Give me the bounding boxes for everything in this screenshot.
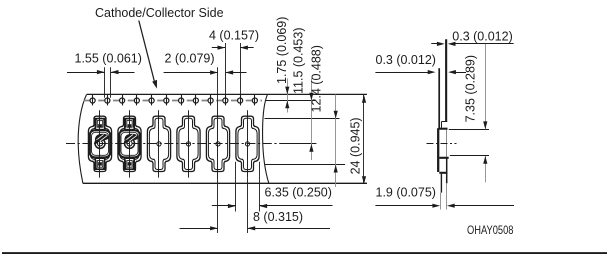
svg-text:2 (0.079): 2 (0.079) (165, 52, 215, 66)
dim 0.3 (0.012) carrier tape thickness (431, 29, 513, 46)
pocket 4 vertical centerline (188, 110, 190, 177)
pocket 6 outline (236, 116, 259, 171)
sprocket holes (90, 95, 95, 105)
dim 6.35 (0.250) pocket width (212, 186, 333, 209)
dim 4 (0.157) sprocket hole pitch (209, 29, 259, 98)
tape top edge (87, 93, 368, 95)
svg-text:12.4 (0.488): 12.4 (0.488) (310, 45, 324, 112)
pocket 4 outline (177, 116, 200, 171)
side view: pocket bottom line (439, 172, 447, 174)
svg-text:1.9 (0.075): 1.9 (0.075) (376, 185, 436, 199)
extension line pocket 6 body right (259, 162, 261, 212)
tape bottom edge (83, 182, 367, 184)
dim 7.35 (0.289) pocket outer depth (449, 44, 489, 182)
side view: pocket top step (438, 128, 447, 130)
dim 0.3 (0.012) cover tape thickness (375, 53, 466, 74)
pocket row horizontal centerline (66, 143, 283, 145)
tape left break line (78, 95, 86, 184)
side view: pocket bump face (437, 128, 439, 172)
pocket 1 outline (88, 116, 111, 171)
svg-text:8 (0.315): 8 (0.315) (253, 210, 303, 224)
sprocket hole row centerline (84, 100, 263, 102)
dim 2 (0.079) pocket centre to sprocket hole (164, 52, 247, 111)
dim 24 (0.945) tape width (349, 95, 367, 184)
svg-text:OHAY0508: OHAY0508 (467, 223, 514, 237)
extension line pocket 6 body left (235, 162, 237, 212)
component (LED package) in pocket 2 (119, 119, 140, 170)
svg-text:1.75 (0.069): 1.75 (0.069) (275, 17, 289, 84)
dim 11.5 (0.453) sprocket centreline to pocket centreline (291, 28, 313, 160)
component (LED package) in pocket 1 (89, 119, 110, 170)
pocket 2 outline (118, 116, 141, 171)
extension line pocket 6 centreline lower (247, 178, 249, 233)
side view: cover tape (438, 68, 440, 128)
svg-text:0.3 (0.012): 0.3 (0.012) (452, 29, 512, 43)
extension line: pocket top (265, 118, 340, 120)
side view: pocket top inner line (441, 121, 447, 123)
tape right break line (263, 95, 269, 184)
pocket 5 center hole (216, 142, 220, 146)
pocket 3 vertical centerline (158, 110, 160, 177)
svg-text:1.55 (0.061): 1.55 (0.061) (75, 52, 142, 66)
dim 1.9 (0.075) total tape thickness (375, 185, 514, 207)
dim 1.75 (0.069) tape edge to sprocket centreline (275, 17, 289, 113)
extension line: pocket bottom (265, 164, 346, 166)
pocket 5 outline (206, 116, 229, 171)
svg-text:Cathode/Collector Side: Cathode/Collector Side (95, 6, 224, 20)
pocket 4 center hole (186, 142, 190, 146)
callout: Cathode/Collector Side (95, 6, 224, 89)
dim 12.4 (0.488) pocket depth span (310, 45, 338, 187)
side view: carrier tape main line (445, 39, 447, 122)
side view: carrier tape behind pocket (hidden) (446, 130, 448, 158)
svg-text:6.35 (0.250): 6.35 (0.250) (265, 186, 332, 200)
pocket 6 vertical centerline (247, 110, 249, 177)
extension line: sprocket centreline (266, 100, 316, 102)
extension line: pocket centreline right (283, 143, 316, 145)
svg-text:7.35 (0.289): 7.35 (0.289) (464, 55, 478, 122)
pocket 6 center hole (245, 142, 249, 146)
pocket 1 vertical centerline (99, 110, 101, 177)
bottom rule (2, 252, 607, 254)
side view: cover tape lower part (440, 174, 442, 193)
svg-text:0.3 (0.012): 0.3 (0.012) (376, 53, 436, 67)
pocket 2 vertical centerline (129, 110, 131, 177)
dim 1.55 (0.061) sprocket hole diameter (67, 52, 142, 98)
pocket 3 center hole (157, 142, 161, 146)
side view: carrier tape below pocket (446, 159, 448, 184)
side view: pocket bottom step (439, 157, 448, 159)
pocket 5 vertical centerline (217, 110, 219, 177)
extension line pocket 5 centreline lower (217, 177, 219, 233)
svg-text:4 (0.157): 4 (0.157) (209, 29, 259, 43)
svg-text:24 (0.945): 24 (0.945) (349, 117, 363, 174)
svg-text:11.5 (0.453): 11.5 (0.453) (291, 28, 305, 94)
side view: lower extension lines (440, 193, 442, 210)
pocket 3 outline (147, 116, 170, 171)
dim 8 (0.315) pocket pitch (180, 210, 330, 230)
side view: centreline (427, 143, 457, 145)
